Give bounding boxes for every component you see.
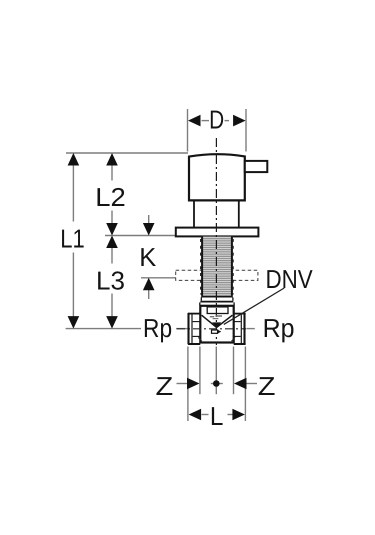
svg-text:Rp: Rp [143, 313, 172, 343]
svg-text:Rp: Rp [263, 313, 295, 343]
svg-text:L3: L3 [96, 265, 125, 295]
svg-text:L2: L2 [95, 182, 125, 212]
svg-text:Z: Z [258, 371, 276, 401]
svg-text:L: L [210, 401, 223, 431]
svg-text:D: D [209, 105, 224, 135]
svg-text:L1: L1 [60, 223, 84, 253]
svg-text:Z: Z [156, 371, 174, 401]
svg-text:K: K [139, 242, 157, 272]
svg-text:DNV: DNV [266, 264, 314, 294]
